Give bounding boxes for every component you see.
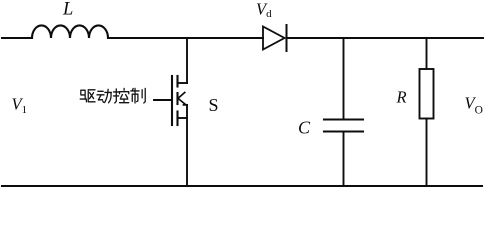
wire: inductor to diode anode (through drain junction) — [108, 37, 263, 39]
svg-text:C: C — [298, 118, 311, 138]
resistor R (box) — [420, 69, 434, 119]
body lead with arrow pointing to channel — [178, 92, 187, 105]
svg-text:R: R — [396, 88, 407, 107]
char 控 — [114, 88, 129, 103]
gate bar — [171, 76, 173, 125]
drive control text 驱动控制 (hand-drawn strokes) — [80, 88, 145, 103]
channel segment (source) — [176, 112, 178, 126]
wire: top rail left segment (input to inductor) — [2, 37, 32, 39]
transistor S (N-MOSFET) — [154, 76, 187, 125]
channel segment (body) — [176, 93, 178, 104]
svg-text:Vd: Vd — [256, 0, 272, 20]
wire: top rail down to capacitor top plate — [343, 38, 345, 119]
channel segment (drain) — [176, 76, 178, 87]
wire: resistor to bottom rail — [426, 119, 428, 187]
wire: diode cathode to top-right rail end — [287, 37, 484, 39]
wire: capacitor bottom plate to bottom rail — [343, 132, 345, 187]
diode Vd — [263, 25, 287, 51]
svg-text:V1: V1 — [12, 95, 28, 117]
source lead — [178, 117, 188, 119]
char 动 — [97, 89, 111, 102]
bottom rail wire — [2, 185, 482, 187]
capacitor C — [324, 120, 363, 132]
svg-text:L: L — [62, 0, 73, 20]
wire: top rail down to resistor — [426, 38, 428, 69]
wire: MOSFET drain up to top rail — [186, 38, 188, 83]
svg-text:VO: VO — [465, 94, 483, 117]
char 驱 — [80, 90, 95, 102]
wire: body/source vertical down to bottom rail — [186, 105, 188, 186]
inductor L — [32, 25, 108, 38]
char 制 — [131, 88, 145, 103]
gate lead wire — [154, 99, 172, 101]
drain lead — [178, 82, 188, 84]
svg-text:S: S — [209, 95, 219, 115]
